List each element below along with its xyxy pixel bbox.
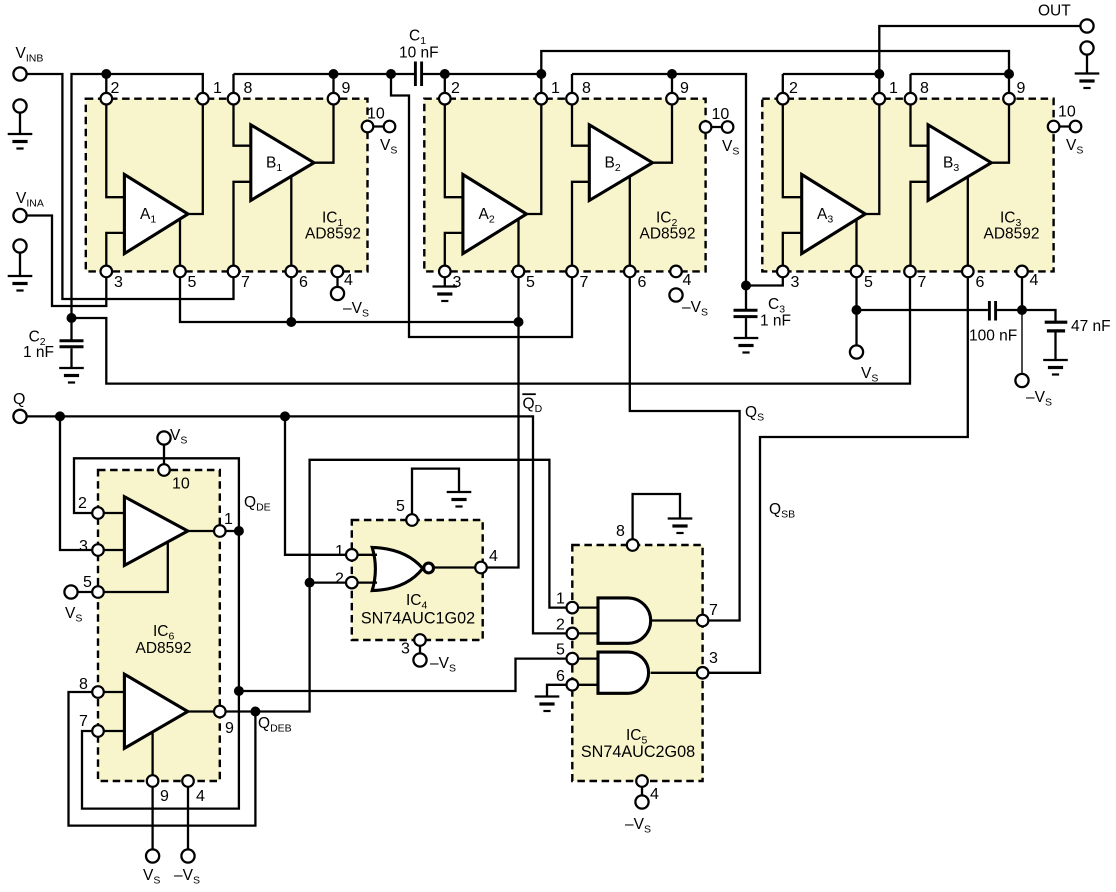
wire IC1 pin 8 riser and internal lead to B1: [234, 74, 251, 146]
wire C1 right plate to IC2 pin 1: [423, 74, 541, 99]
svg-text:2: 2: [78, 495, 87, 512]
terminal -VS at IC5 pin 4: [635, 795, 648, 808]
junction IC2 pin 1 tap on top rail: [536, 69, 546, 79]
pin circle IC6 pin 3: [92, 544, 104, 556]
wire VINA input to IC1 pin 3: [20, 216, 106, 307]
pin circle IC3 pin 3: [777, 266, 789, 278]
pin circle IC6 pin 4: [182, 775, 194, 787]
pin circle IC6 pin 8: [92, 686, 104, 698]
pin circle IC5 pin 1: [567, 602, 579, 614]
junction IC3 pin 1 / OUT tap on top rail: [874, 69, 884, 79]
wire IC6 pin 5 internal lead to upper amp output edge: [98, 543, 168, 593]
svg-text:5: 5: [526, 274, 535, 291]
pin circle IC2 pin 5: [513, 266, 525, 278]
wire QDEB feedback loop to IC6 pin 8: [69, 692, 256, 826]
svg-text:4: 4: [683, 272, 692, 289]
pin circle IC1 pin 10 supply: [384, 121, 396, 133]
wire IC2 pin 3 internal lead to A2: [445, 233, 463, 272]
ground below VINA: [19, 253, 21, 276]
junction IC3 pin 9 tap on top rail: [1004, 69, 1014, 79]
pin circle IC5 pin 4: [636, 775, 648, 787]
wire IC1 pin 4 to -VS terminal: [336, 271, 338, 293]
terminal ground circle below VINB: [13, 99, 26, 112]
svg-text:3: 3: [114, 274, 123, 291]
terminal -VS at IC2 pin 4: [669, 288, 682, 301]
terminal VINB: [13, 67, 26, 80]
pin circle IC3 pin 10 supply: [1070, 121, 1082, 133]
wire B2 output to IC2 pin 9 and up: [653, 74, 673, 163]
svg-text:7: 7: [709, 602, 718, 619]
svg-text:1 nF: 1 nF: [760, 313, 791, 330]
terminal -VS at IC3 pin 4: [1015, 374, 1028, 387]
pin circle IC4 pin 2: [346, 577, 358, 589]
junction QDE branch: [234, 686, 244, 696]
ground at IC5 pin 8: [668, 519, 693, 534]
svg-text:Q: Q: [13, 391, 25, 408]
svg-text:1 nF: 1 nF: [23, 344, 54, 361]
wire IC6 pin 2 feedback loop from pin 1: [74, 458, 239, 531]
pin circle IC1 pin 5: [174, 266, 186, 278]
wire IC3 pin 2 node to pin 1: [783, 74, 880, 99]
wire QDEB net: IC6 lower output to IC4 pin 2 and IC5 pin 1: [188, 460, 573, 712]
svg-text:8: 8: [920, 80, 929, 97]
terminal -VS at IC4 pin 3: [413, 653, 426, 666]
terminal Q: [13, 410, 26, 423]
svg-text:8: 8: [582, 80, 591, 97]
wire IC6 upper amp output to pin 1: [188, 530, 239, 532]
pin circle IC3 pin 4: [1016, 266, 1028, 278]
wire IC6 pin 8 internal lead: [98, 691, 124, 693]
ground below C3: [734, 338, 759, 353]
svg-text:3: 3: [453, 274, 462, 291]
wire IC5 pin 2 stub: [572, 632, 598, 634]
svg-text:OUT: OUT: [1038, 3, 1071, 20]
AND gate U5B (lower): [598, 652, 649, 693]
wire Q branch to IC6 pin 3: [60, 416, 98, 550]
pin circle IC1 pin 3: [101, 266, 113, 278]
pin circle IC3 pin 6: [962, 266, 974, 278]
svg-text:10: 10: [712, 106, 730, 123]
svg-text:SN74AUC1G02: SN74AUC1G02: [361, 610, 475, 628]
svg-text:10: 10: [367, 106, 385, 123]
wire OUT ground terminal stem: [1086, 55, 1088, 74]
wire VINB input to IC1 pin 7: [20, 74, 234, 299]
svg-text:100 nF: 100 nF: [969, 328, 1017, 345]
junction C3 node: [741, 281, 751, 291]
svg-text:5: 5: [556, 642, 565, 659]
svg-text:9: 9: [680, 80, 689, 97]
pin circle IC1 pin 9: [328, 93, 340, 105]
wire Q branch to IC4 pin 1: [285, 416, 352, 554]
wire B1 output feedback to IC1 pin 6: [290, 176, 292, 271]
pin circle IC1 pin 10: [362, 121, 374, 133]
wire IC6 pin 3 internal lead: [98, 549, 124, 551]
op-amp A3: [802, 175, 866, 254]
wire IC6 pin 5 to VS terminal: [71, 591, 98, 593]
junction QDE at IC6 pin 1: [234, 526, 244, 536]
capacitor C1 10 nF: [415, 62, 421, 87]
svg-text:1: 1: [556, 591, 565, 608]
pin circle IC1 pin 8: [228, 93, 240, 105]
svg-text:4: 4: [650, 786, 659, 803]
wire lower AND output to IC5 pin 3: [651, 672, 703, 674]
svg-text:6: 6: [638, 274, 647, 291]
pin circle IC4 pin 5: [406, 514, 418, 526]
wire B2 output feedback to IC2 pin 6: [629, 176, 631, 271]
pin circle IC2 pin 4: [670, 266, 682, 278]
svg-text:9: 9: [160, 788, 169, 805]
wire IC2 pin 8 riser and internal lead to B2: [572, 74, 589, 146]
wire upper AND output to IC5 pin 7: [651, 619, 703, 621]
svg-text:5: 5: [864, 274, 873, 291]
pin circle IC1 pin 2: [101, 93, 113, 105]
pin circle IC1 pin 7: [228, 266, 240, 278]
svg-text:5: 5: [83, 574, 92, 591]
wire IC3 pin 8 riser and internal lead to B3: [911, 74, 929, 146]
wire NOR output to IC4 pin 4: [433, 566, 481, 568]
capacitor 47 nF: [1045, 322, 1068, 331]
AND gate IC U5 body (IC5 SN74AUC2G08 dashed box): [572, 545, 702, 781]
terminal VS at IC6 pin 9: [146, 849, 159, 862]
wire IC2 pin 9 node to C3 and IC3 pin 3: [572, 74, 783, 286]
pin circle IC3 pin 2: [777, 93, 789, 105]
wire A2 output to IC2 pin 1: [527, 99, 542, 214]
wire IC6 pin 4 to -VS terminal: [187, 781, 189, 850]
wire IC3 pin 5 node to 100 nF: [857, 309, 988, 311]
svg-text:1: 1: [551, 80, 560, 97]
wire IC3 pin 7 internal lead to B3: [911, 182, 929, 272]
svg-text:3: 3: [79, 538, 88, 555]
pin circle IC3 pin 5: [851, 266, 863, 278]
terminal VS at IC6 pin 5: [64, 585, 77, 598]
svg-text:10: 10: [172, 476, 190, 493]
pin circle IC2 pin 7: [566, 266, 578, 278]
wire 47 nF to ground: [1054, 331, 1056, 361]
pin circle IC3 pin 7: [904, 266, 916, 278]
pin circle IC6 pin 2: [92, 507, 104, 519]
capacitor C3 1 nF: [745, 286, 747, 310]
svg-text:AD8592: AD8592: [135, 640, 191, 657]
wire IC3 pin 3 internal lead to A3: [783, 233, 802, 272]
pin circle IC6 pin 9 bottom: [147, 775, 159, 787]
pin circle IC3 pin 10: [1048, 121, 1060, 133]
wire B3 output feedback to IC3 pin 6: [967, 176, 969, 271]
wire OUT terminal from IC3 pin 1 node: [879, 26, 1087, 74]
op-amp IC U2 body (IC2 AD8592 dashed box): [424, 99, 705, 272]
op-amp B3: [928, 125, 991, 201]
svg-text:7: 7: [580, 274, 589, 291]
svg-text:3: 3: [791, 274, 800, 291]
svg-text:1: 1: [213, 80, 222, 97]
ground at IC5 pin 6: [535, 697, 560, 712]
wire A3 output to IC3 pin 1: [865, 99, 879, 214]
wire A3 output feedback to IC3 pin 5 and VS: [855, 220, 857, 346]
wire A1 output feedback to IC1 pin 5: [179, 219, 181, 272]
junction QDEB at IC4 pin 2: [305, 578, 315, 588]
wire IC4 pin 3 to -VS terminal: [419, 640, 421, 660]
wire B1 output to IC1 pin 9 and up: [314, 74, 334, 163]
wire QSB net: IC5 pin 3 to IC3 pin 6: [703, 271, 968, 672]
svg-text:7: 7: [918, 274, 927, 291]
wire QDE branch to IC5 pin 5: [239, 659, 572, 691]
pin circle IC3 pin 8: [905, 93, 917, 105]
terminal VS at IC3 pin 5: [850, 345, 863, 358]
pin circle IC1 pin 1: [197, 93, 209, 105]
pin circle IC1 pin 6: [286, 266, 298, 278]
wire IC6 pin 2 internal lead: [98, 512, 124, 514]
pin circle IC2 pin 9: [666, 93, 678, 105]
wire B3 output to IC3 pin 9 and up: [991, 74, 1009, 163]
wire C2 node to IC3 pin 7 (long bottom rail): [72, 271, 911, 383]
svg-text:4: 4: [489, 548, 498, 565]
svg-text:8: 8: [616, 523, 625, 540]
pin circle IC6 pin 9 output: [214, 706, 226, 718]
svg-text:5: 5: [396, 498, 405, 515]
wire IC4 pin 5 to ground: [412, 469, 459, 520]
NOR gate IC U4 body (IC4 SN74AUC1G02 dashed box): [352, 520, 483, 640]
junction IC2 pin 2 tap on top rail: [440, 69, 450, 79]
terminal ground circle below VINA: [13, 239, 26, 252]
svg-text:10: 10: [1058, 104, 1076, 121]
svg-text:8: 8: [79, 676, 88, 693]
wire IC1 pin 2 branch and internal lead to A1: [106, 74, 124, 197]
svg-text:2: 2: [335, 571, 344, 588]
junction QD node on pin 5 rail: [514, 317, 524, 327]
ground below 47 nF: [1043, 360, 1068, 375]
wire IC1 pin 5 to QD node vertical: [180, 271, 519, 322]
ground below OUT terminal: [1075, 74, 1100, 89]
pin circle IC6 pin 1: [214, 525, 226, 537]
wire IC2 pin 7 internal lead to B2: [572, 182, 589, 272]
pin circle IC1 pin 4: [332, 266, 344, 278]
wire IC5 pin 4 to -VS terminal: [641, 781, 643, 802]
svg-text:AD8592: AD8592: [639, 226, 695, 243]
pin circle IC3 pin 1: [874, 93, 886, 105]
junction C1 left tap on top rail: [386, 69, 396, 79]
svg-text:1: 1: [224, 511, 233, 528]
terminal -VS at IC6 pin 4: [181, 849, 194, 862]
svg-text:SN74AUC2G08: SN74AUC2G08: [581, 743, 695, 761]
pin circle IC2 pin 1: [536, 93, 548, 105]
op-amp IC6 lower amplifier: [124, 674, 187, 748]
wire IC4 pin 2 lead: [310, 581, 352, 583]
junction Q rail at IC6 pin 3 branch: [55, 411, 65, 421]
pin circle IC5 pin 6: [567, 679, 579, 691]
op-amp A1: [124, 175, 188, 254]
wire IC1 pin 6 down to pin5 rail: [290, 271, 292, 322]
pin circle IC6 pin 7: [92, 725, 104, 737]
wire C2 node up and along top to IC1 pin 1: [72, 74, 203, 318]
svg-text:7: 7: [79, 713, 88, 730]
wire IC3 pin 2 branch and internal lead to A3: [783, 74, 802, 197]
svg-text:1: 1: [335, 543, 344, 560]
svg-text:4: 4: [196, 788, 205, 805]
wire IC6 bottom pin 9 to VS terminal: [151, 732, 153, 850]
wire Q input rail to IC5 pin 2: [20, 416, 572, 633]
ground at IC2 pin 3: [444, 271, 446, 286]
wire VS supply to IC6 pin 10: [163, 438, 165, 470]
wire IC4 pin 1 stub: [352, 554, 377, 556]
capacitor 100 nF: [989, 301, 995, 321]
AND gate U5A (upper): [598, 598, 651, 643]
op-amp A2: [463, 175, 527, 254]
svg-text:47 nF: 47 nF: [1071, 318, 1111, 335]
svg-text:3: 3: [709, 650, 718, 667]
wire IC1 pin 3 internal lead to A1: [106, 233, 124, 272]
wire 100 nF to 47 nF node: [997, 310, 1055, 321]
wire IC5 pin 6 stub: [572, 684, 598, 686]
wire QS net: IC2 pin 6 to IC5 pin 7: [630, 271, 740, 620]
pin circle IC4 pin 1: [346, 549, 358, 561]
svg-text:3: 3: [401, 641, 410, 658]
junction QDEB at IC6 pin 9: [250, 707, 260, 717]
svg-text:2: 2: [111, 80, 120, 97]
pin circle IC6 pin 10: [158, 464, 170, 476]
svg-text:9: 9: [225, 720, 234, 737]
junction IC1 pin 9 tap on top rail: [329, 69, 339, 79]
wire IC2 pin 10 to VS terminal: [706, 126, 728, 128]
pin circle IC5 pin 7: [697, 615, 709, 627]
svg-text:5: 5: [188, 274, 197, 291]
pin circle IC2 pin 10 supply: [722, 121, 734, 133]
pin circle IC4 pin 3: [414, 634, 426, 646]
junction IC3 pin 5 node: [852, 305, 862, 315]
wire IC3 pin 4 riser: [1021, 271, 1023, 310]
svg-text:1: 1: [889, 80, 898, 97]
svg-text:6: 6: [299, 274, 308, 291]
pin circle IC3 pin 9: [1003, 93, 1015, 105]
op-amp B1: [251, 125, 314, 201]
wire IC2 pin 2 branch and internal lead to A2: [445, 74, 463, 197]
wire IC3 pin 10 to VS terminal: [1054, 125, 1076, 127]
svg-text:6: 6: [556, 668, 565, 685]
pin circle IC6 pin 5: [92, 586, 104, 598]
svg-text:2: 2: [556, 616, 565, 633]
op-amp IC6 upper amplifier: [124, 497, 187, 566]
svg-text:6: 6: [976, 274, 985, 291]
wire IC3 pin 4 node to -VS terminal: [1021, 310, 1023, 374]
op-amp IC U6 body (IC6 AD8592 dashed box): [98, 470, 220, 781]
wire IC1 pin 10 to VS terminal: [368, 125, 390, 127]
capacitor C2 1 nF: [70, 318, 72, 340]
junction Q rail at IC4 pin 1 branch: [280, 411, 290, 421]
op-amp IC U1 body (IC1 AD8592 dashed box): [86, 99, 368, 272]
pin circle IC2 pin 2: [439, 93, 451, 105]
svg-text:4: 4: [1030, 272, 1039, 289]
svg-text:AD8592: AD8592: [305, 226, 361, 243]
svg-text:AD8592: AD8592: [983, 226, 1039, 243]
ground at IC4 pin 5: [447, 492, 472, 507]
pin circle IC5 pin 2: [567, 628, 579, 640]
pin circle IC2 pin 10: [700, 121, 712, 133]
svg-text:9: 9: [342, 80, 351, 97]
svg-text:10 nF: 10 nF: [399, 45, 439, 62]
wire IC5 pin 6 to ground: [547, 685, 572, 696]
NOR gate U4: [372, 547, 423, 590]
junction IC1 pin 2 tap on top rail: [101, 69, 111, 79]
junction IC1 pin 6 on pin 5 rail: [286, 317, 296, 327]
svg-text:2: 2: [789, 80, 798, 97]
wire IC6 pin 7 internal lead: [98, 730, 124, 732]
op-amp IC U3 body (IC3 AD8592 dashed box): [762, 99, 1053, 272]
wire IC1 pin 7 internal lead to B1: [234, 182, 251, 272]
svg-text:2: 2: [451, 80, 460, 97]
wire IC4 pin 2 stub: [352, 581, 377, 583]
wire IC5 pin 8 to ground: [633, 494, 680, 545]
terminal OUT: [1080, 19, 1093, 32]
wire QDE vertical: IC6 pin 1 node down to pin 7 loop: [82, 531, 239, 809]
terminal VINA: [13, 209, 26, 222]
svg-text:7: 7: [241, 274, 250, 291]
junction IC2 pin 9 tap on top rail: [667, 69, 677, 79]
terminal VS at IC6 pin 10: [157, 431, 170, 444]
svg-text:8: 8: [244, 80, 253, 97]
wire C1 left node down to IC2 pin 7: [391, 74, 572, 337]
wire QD net: IC4 pin 4 up to IC2 pin 5: [481, 271, 519, 567]
pin circle IC2 pin 8: [566, 93, 578, 105]
wire IC1 pin 8 to C1 left plate: [234, 73, 415, 75]
terminal ground circle below OUT: [1080, 41, 1093, 54]
svg-text:4: 4: [344, 272, 353, 289]
wire IC5 pin 1 stub: [572, 606, 598, 608]
wire A2 output feedback to IC2 pin 5: [517, 219, 519, 271]
pin circle IC5 pin 5: [567, 653, 579, 665]
junction C2 node: [67, 313, 77, 323]
pin circle IC2 pin 3: [439, 266, 451, 278]
junction IC3 pin 4 node: [1017, 305, 1027, 315]
wire IC5 pin 5 stub: [572, 657, 598, 659]
pin circle IC4 pin 4: [475, 562, 487, 574]
wire upper bypass rail from IC2 pin 1 node to IC3 pin 9 node: [541, 51, 1009, 74]
pin circle IC5 pin 8: [627, 539, 639, 551]
op-amp B2: [589, 125, 652, 201]
wire A1 output to IC1 pin 1: [188, 99, 203, 214]
svg-text:9: 9: [1017, 80, 1026, 97]
ground below VINB: [19, 113, 21, 134]
pin circle IC5 pin 3: [697, 667, 709, 679]
wire IC3 pin 8 rail to pin 9 node: [911, 73, 1010, 75]
terminal -VS at IC1 pin 4: [331, 287, 344, 300]
pin circle IC2 pin 6: [624, 266, 636, 278]
ground below C2: [59, 368, 84, 383]
